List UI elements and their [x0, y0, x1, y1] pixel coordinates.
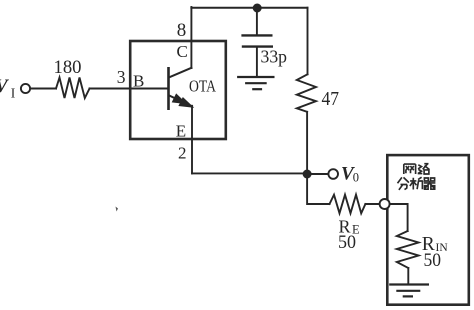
wire: junction to capacitor	[256, 8, 258, 34]
svg-text:180: 180	[54, 57, 82, 78]
svg-text:50: 50	[338, 233, 356, 253]
svg-text:50: 50	[424, 251, 442, 271]
wire: resistor 180 to base (pin 3)	[90, 88, 169, 90]
svg-text:V: V	[0, 76, 9, 97]
wire: emitter down through pin 2	[191, 106, 193, 174]
wire: capacitor to ground	[256, 48, 258, 76]
svg-text:E: E	[176, 122, 186, 141]
transistor Q1 emitter stroke with double arrow	[170, 94, 193, 107]
transistor Q1 collector stroke	[170, 68, 192, 77]
wire: collector to top rail (pin 8)	[190, 7, 192, 68]
network analyzer box	[387, 155, 469, 305]
wire: top rail corner down to resistor 47	[307, 8, 309, 75]
wire: top rail	[191, 7, 307, 9]
junction node at V_O	[303, 170, 312, 179]
svg-text:OTA: OTA	[189, 77, 216, 96]
terminal V_I	[0, 76, 30, 100]
label 分析器 (analyzer)	[398, 177, 436, 190]
resistor 180	[54, 57, 90, 98]
wire: resistor 47 down to output node	[306, 112, 308, 174]
svg-text:33p: 33p	[261, 47, 288, 67]
wire: node down to resistor RE	[307, 174, 329, 204]
wire: resistor RIN to ground	[407, 268, 409, 284]
wire: node to V_O terminal	[311, 173, 328, 175]
resistor RE 50	[330, 195, 366, 254]
junction node on top rail	[253, 4, 262, 13]
svg-text:C: C	[177, 42, 188, 61]
terminal node on analyzer input	[380, 199, 390, 209]
svg-text:8: 8	[177, 20, 187, 41]
ground (capacitor)	[238, 77, 273, 89]
label 网络 (network)	[404, 164, 430, 174]
OTA box U1	[130, 41, 226, 139]
wire: pin 2 to output node	[192, 172, 307, 174]
svg-text:B: B	[133, 71, 144, 90]
wire: analyzer node to resistor RIN	[390, 204, 408, 231]
svg-text:I: I	[11, 85, 16, 100]
svg-text:2: 2	[178, 143, 187, 162]
terminal V_O	[328, 164, 359, 185]
svg-text:47: 47	[322, 88, 340, 110]
transistor Q1 base bar	[167, 67, 170, 110]
svg-text:0: 0	[353, 170, 359, 184]
svg-text:3: 3	[117, 67, 126, 87]
ground (analyzer)	[390, 285, 428, 297]
resistor RIN 50	[397, 231, 449, 271]
capacitor C1 33p	[243, 35, 288, 66]
resistor R 47	[297, 74, 339, 112]
wire: resistor RE to analyzer input node	[365, 203, 380, 205]
wire: V_I terminal to resistor 180	[31, 88, 57, 90]
